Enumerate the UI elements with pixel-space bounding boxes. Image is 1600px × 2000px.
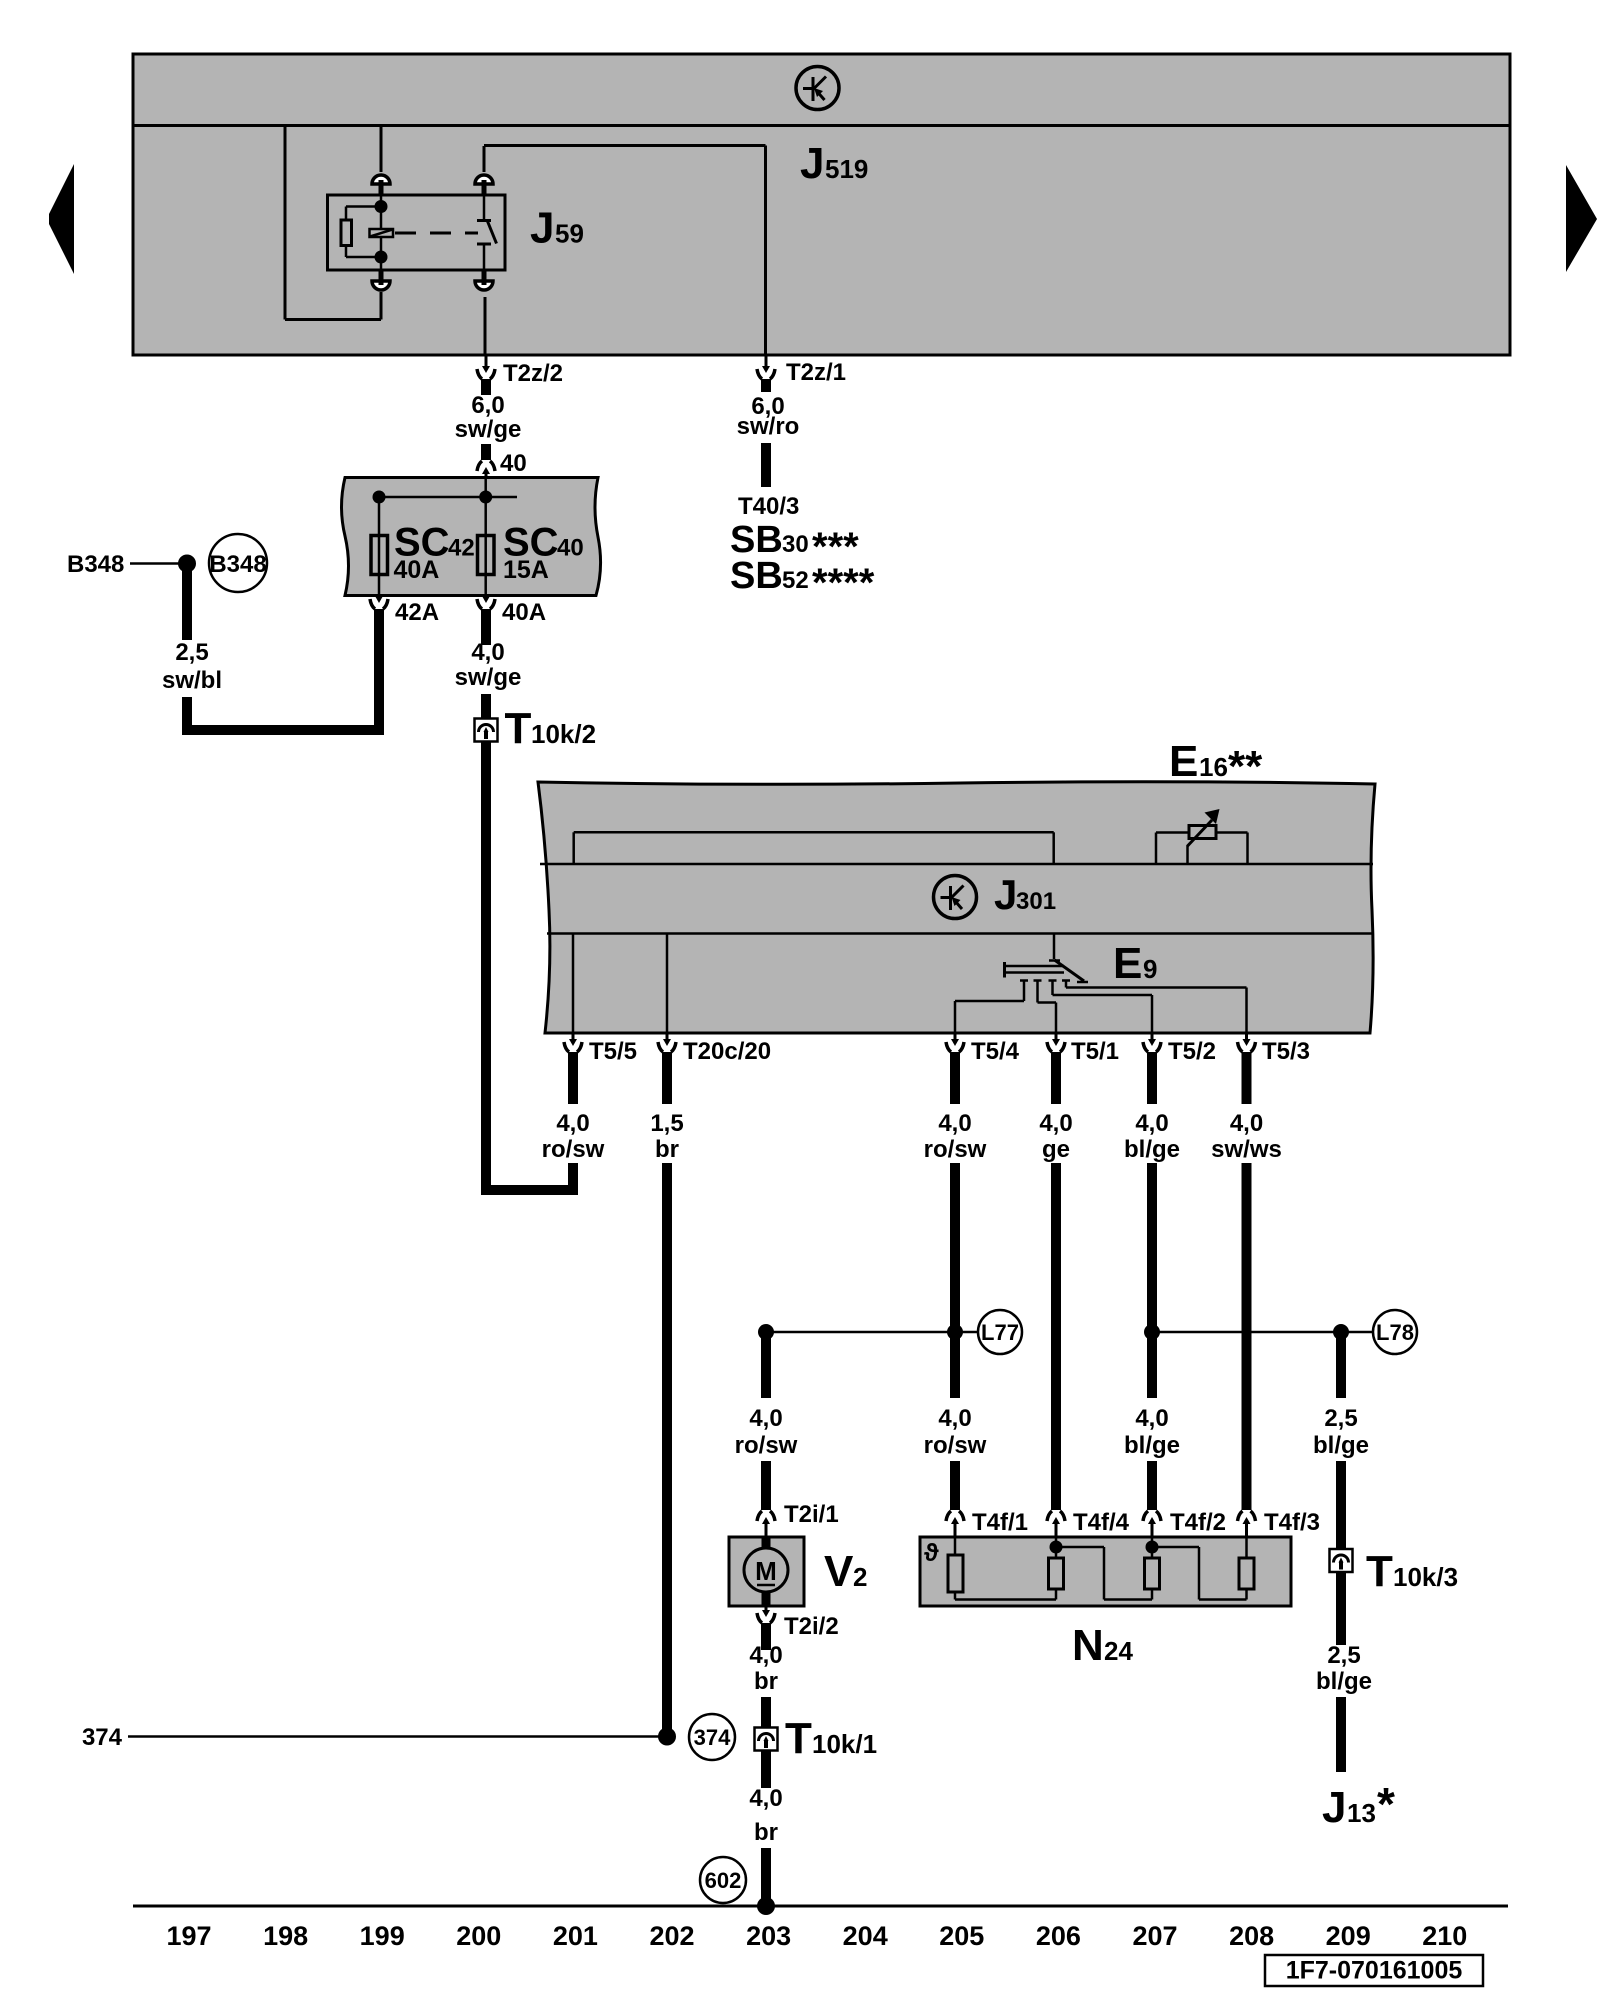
label E9 [1113,939,1157,988]
J59 pin top-right connector [475,175,493,195]
E9 contact 4 wire to T5/3 [1062,981,1247,1034]
wire 6,0 sw/ro lower segment [761,443,771,487]
J59 armature (actuator) symbol [370,207,394,258]
label J13 * [1322,1778,1395,1832]
svg-text:ro/sw: ro/sw [735,1432,798,1459]
wire J59 bottom-right pin to T2z/2 [484,297,487,355]
svg-text:T5/2: T5/2 [1168,1038,1216,1065]
wire 2,5 bl/ge from L78 upper segment [1336,1332,1346,1398]
svg-text:J: J [994,871,1017,918]
pin T4f/3 of N24 [1238,1509,1321,1537]
svg-text:T5/3: T5/3 [1262,1038,1310,1065]
N24 junction dot at T4f/4 [1050,1541,1063,1554]
junction dot 374 [658,1728,676,1746]
svg-text:T2z/2: T2z/2 [503,360,563,387]
svg-text:4,0: 4,0 [1230,1110,1263,1137]
svg-text:T2i/1: T2i/1 [784,1501,839,1528]
pin T2z/1 of J519 [757,355,846,386]
svg-text:T: T [1366,1547,1393,1596]
svg-text:br: br [655,1136,679,1163]
N24 resistor element 4 [1239,1537,1254,1589]
wire 4,0 ro/sw from T5/4 upper segment [950,1052,960,1104]
svg-text:42: 42 [448,535,475,562]
V2 motor symbol [744,1537,788,1606]
svg-text:bl/ge: bl/ge [1316,1668,1372,1695]
svg-text:6,0: 6,0 [471,392,504,419]
wire inside J301 to T5/5 [572,934,575,1034]
series resistor N24 box [920,1537,1291,1606]
svg-text:T4f/2: T4f/2 [1170,1509,1226,1536]
svg-text:209: 209 [1326,1921,1371,1951]
wire label 4,0 br (upper) [749,1642,782,1695]
wire 2,5 sw/bl up to B348 upper segment [182,563,192,640]
wire 4,0 ro/sw to T4f/1 lower segment [950,1461,960,1510]
wire 4,0 sw/ge to connector T10k/2 [481,694,491,719]
svg-text:519: 519 [825,154,868,184]
J59 coil winding [341,195,388,270]
svg-text:ro/sw: ro/sw [924,1432,987,1459]
svg-text:T2i/2: T2i/2 [784,1613,839,1640]
svg-text:52: 52 [782,567,809,594]
svg-text:4,0: 4,0 [749,1642,782,1669]
pin T20c/20 of J301 [658,1033,771,1065]
wire label 1,5 br [650,1110,683,1163]
svg-text:bl/ge: bl/ge [1313,1432,1369,1459]
label SC40 15A [503,521,584,585]
wire label 6,0 sw/ro [737,393,800,440]
node circle B348 [209,534,267,592]
wire label 4,0 bl/ge (T5/2) [1124,1110,1180,1163]
pin T5/3 of J301 [1238,1033,1311,1065]
label B348 (left) [67,551,124,578]
pin T5/2 of J301 [1143,1033,1216,1065]
svg-text:199: 199 [360,1921,405,1951]
svg-text:T5/1: T5/1 [1071,1038,1119,1065]
svg-text:203: 203 [746,1921,791,1951]
svg-text:T4f/3: T4f/3 [1264,1509,1320,1536]
label J301 [994,871,1056,918]
pin 42A of fuse holder [370,596,439,627]
label E16 ** [1169,737,1263,791]
svg-text:ro/sw: ro/sw [542,1136,605,1163]
svg-text:202: 202 [649,1921,694,1951]
svg-text:L77: L77 [981,1320,1019,1345]
svg-text:1,5: 1,5 [650,1110,683,1137]
svg-text:br: br [754,1819,778,1846]
svg-text:br: br [754,1668,778,1695]
junction on bus at fuse SC40 [479,491,492,504]
svg-text:374: 374 [82,1724,123,1751]
label N24 [1072,1621,1133,1670]
current track ruler numbers [166,1921,1467,1951]
svg-text:207: 207 [1132,1921,1177,1951]
svg-text:16: 16 [1199,752,1228,782]
svg-text:24: 24 [1104,1636,1133,1666]
E9 contact 1 wire to T5/4 [955,981,1028,1034]
svg-text:**: ** [1228,742,1263,791]
N24 internal wire T4f/2 to R4 [1152,1547,1247,1600]
wire 4,0 ro/sw from T5/5 upper segment [568,1052,578,1104]
svg-text:30: 30 [782,531,809,558]
wire 2,5 bl/ge below T10k/3 [1336,1572,1346,1645]
internal connection symbol (circle-K) in J301 [934,876,977,919]
svg-text:201: 201 [553,1921,598,1951]
pin T5/4 of J301 [946,1033,1020,1065]
svg-text:4,0: 4,0 [1135,1110,1168,1137]
svg-text:40A: 40A [394,556,440,584]
junction dot on T5/2 wire (L78) [1144,1324,1160,1340]
wire 6,0 sw/ro upper segment [761,379,771,392]
svg-text:2,5: 2,5 [1324,1405,1357,1432]
J59 pin bottom-right connector [475,270,493,290]
svg-text:374: 374 [694,1725,731,1750]
wire J519 internal from J59 top-right pin to T2z/1 [484,146,766,356]
wire 4,0 ro/sw from T5/4 to L77 [950,1163,960,1332]
in-line connector T10k/1 [755,1714,878,1763]
svg-text:V: V [824,1547,854,1596]
ground rail line [133,1905,1508,1908]
svg-text:9: 9 [1143,954,1157,984]
wire inside J301 to T20c/20 [666,934,669,1034]
svg-text:T5/4: T5/4 [971,1038,1020,1065]
svg-text:208: 208 [1229,1921,1274,1951]
label T40/3 [738,493,799,520]
wire 2,5 sw/bl horizontal run [182,725,384,735]
page-edge arrow right [1566,165,1597,272]
wire 4,0 br below T10k/1 [761,1751,771,1789]
svg-text:M: M [755,1556,777,1586]
label J519 [800,139,868,188]
wire label 4,0 ro/sw (V2 feed) [735,1405,798,1459]
E16 internal bus rectangle [574,832,1054,864]
wire J519 internal to J59 top-left pin [380,126,383,173]
pin 40A of fuse holder [477,596,546,627]
fuse SC40 symbol [478,536,495,575]
svg-text:200: 200 [456,1921,501,1951]
E9 contact 3 wire to T5/2 [1049,981,1153,1034]
wire below fuse SC42 [378,575,381,596]
svg-text:sw/ge: sw/ge [455,664,522,691]
wire label 4,0 ro/sw (T5/5) [542,1110,605,1163]
svg-text:T40/3: T40/3 [738,493,799,520]
heater control unit box J301 / fresh air controls E16 [538,782,1375,1033]
wire 4,0 sw/ws long run to T4f/3 [1242,1163,1252,1510]
svg-text:bl/ge: bl/ge [1124,1432,1180,1459]
in-line connector T10k/2 [475,704,597,753]
svg-text:E: E [1113,939,1142,988]
svg-text:SB: SB [730,555,783,597]
svg-text:4,0: 4,0 [749,1405,782,1432]
pin T2i/2 of V2 [757,1606,839,1640]
J59 pin bottom-left connector [372,270,390,290]
wire label 6,0 sw/ge [455,392,522,443]
E9 contact 2 wire to T5/1 [1034,981,1057,1034]
svg-text:15A: 15A [503,556,549,584]
svg-text:J: J [800,139,824,188]
wire 2,5 bl/ge to J13 [1336,1697,1346,1772]
svg-text:210: 210 [1422,1921,1467,1951]
wire 1,5 br long run to node 374 [662,1163,672,1732]
wire 4,0 ro/sw from L77 to V2 upper segment [761,1332,771,1398]
wire label 4,0 ro/sw (T4f/1 feed) [924,1405,987,1459]
fuse panel internal bus [379,497,517,536]
N24 internal wire R1-R2 [955,1589,1056,1600]
node circle L77 [978,1310,1022,1354]
svg-text:B348: B348 [209,551,266,578]
wire label 4,0 sw/ws [1211,1110,1282,1163]
svg-text:2,5: 2,5 [175,639,208,666]
wire 4,0 br to T10k/1 [761,1697,771,1728]
svg-text:****: **** [812,561,875,605]
svg-text:4,0: 4,0 [471,639,504,666]
wire 4,0 br to ground point 602 [761,1848,771,1906]
svg-text:sw/ge: sw/ge [455,416,522,443]
svg-text:4,0: 4,0 [938,1110,971,1137]
internal connection symbol (circle-K) in J519 [796,67,839,110]
svg-text:sw/ro: sw/ro [737,413,800,440]
svg-text:198: 198 [263,1921,308,1951]
svg-text:40: 40 [500,450,527,477]
in-line connector T10k/3 [1330,1547,1459,1596]
svg-text:L78: L78 [1376,1320,1414,1345]
svg-text:4,0: 4,0 [1135,1405,1168,1432]
svg-text:sw/ws: sw/ws [1211,1136,1282,1163]
J301 box separator lines [540,864,1373,934]
blower switch E9 feed wire [1053,934,1056,960]
wire 4,0 bl/ge from T5/2 to L78 [1147,1163,1157,1332]
svg-text:2,5: 2,5 [1327,1642,1360,1669]
svg-text:10k/3: 10k/3 [1393,1562,1458,1592]
wire label 2,5 bl/ge (upper) [1313,1405,1369,1459]
svg-text:1F7-070161005: 1F7-070161005 [1286,1957,1463,1985]
svg-text:206: 206 [1036,1921,1081,1951]
node circle 374 [689,1714,735,1760]
N24 internal wire T4f/4 to R3 [1056,1547,1152,1600]
wire 4,0 bl/ge from T5/2 upper segment [1147,1052,1157,1104]
svg-text:E: E [1169,737,1198,786]
wire 4,0 sw/ws from T5/3 upper segment [1242,1052,1252,1104]
label SB30 *** [730,519,859,569]
svg-text:4,0: 4,0 [1039,1110,1072,1137]
svg-text:T4f/4: T4f/4 [1073,1509,1130,1536]
svg-text:602: 602 [705,1868,742,1893]
node L78 link wire [1152,1331,1373,1334]
J59 mechanical link (dashed) [395,232,478,235]
potentiometer E16 (illumination dimmer) [1156,809,1248,864]
junction on bus at fuse SC42 [373,491,386,504]
wire 4,0 ro/sw from L77 to V2 lower segment [761,1461,771,1510]
node 374 link wire [128,1735,667,1738]
wire 4,0 bl/ge from L78 on T5/2 branch [1147,1332,1157,1398]
N24 resistor element 3 [1145,1537,1160,1589]
node circle L78 [1373,1310,1417,1354]
junction dot on V2 branch (L77) [758,1324,774,1340]
J59 pin top-left connector [372,175,390,195]
svg-text:205: 205 [939,1921,984,1951]
svg-text:301: 301 [1016,888,1056,915]
ground junction dot 602 [757,1897,775,1915]
svg-text:40A: 40A [502,599,546,626]
junction dot on T5/4 wire (L77) [947,1324,963,1340]
pin 40 on fuse holder [477,450,527,478]
wire 4,0 ge from T5/1 upper segment [1051,1052,1061,1104]
svg-text:bl/ge: bl/ge [1124,1136,1180,1163]
label V2 [824,1547,867,1596]
wire J519 internal to J59 coil pin (left drop) [285,126,381,320]
svg-text:T2z/1: T2z/1 [786,359,846,386]
svg-text:10k/2: 10k/2 [531,719,596,749]
pin T2i/1 of V2 [757,1501,839,1537]
svg-text:4,0: 4,0 [556,1110,589,1137]
pin T4f/4 of N24 [1047,1509,1130,1537]
svg-text:T: T [785,1714,812,1763]
wire label 2,5 sw/bl [162,639,222,694]
wire 2,5 sw/bl lower segment [182,697,192,735]
svg-text:ro/sw: ro/sw [924,1136,987,1163]
label J59 [530,204,584,253]
wire label 4,0 br (lower) [749,1785,782,1846]
diagram number box [1265,1955,1483,1986]
svg-text:42A: 42A [395,599,439,626]
fresh air blower V2 box [729,1537,804,1606]
wire 4,0 bl/ge to T4f/2 lower segment [1147,1461,1157,1510]
svg-text:4,0: 4,0 [749,1785,782,1812]
fuse holder box (SC fuses) [342,478,601,596]
svg-text:ϑ: ϑ [924,1539,939,1567]
wire 2,5 bl/ge to T10k/3 [1336,1461,1346,1549]
svg-text:T4f/1: T4f/1 [972,1509,1028,1536]
svg-text:B348: B348 [67,551,124,578]
wire 4,0 br from T2i/2 upper segment [761,1623,771,1650]
svg-text:*: * [1377,1778,1395,1830]
svg-text:4,0: 4,0 [938,1405,971,1432]
svg-text:N: N [1072,1621,1104,1670]
wire label 4,0 ro/sw (T5/4) [924,1110,987,1163]
wire label 4,0 sw/ge [455,639,522,691]
node B348 junction dot [178,555,196,573]
blower switch E9 slider symbol [1005,960,1089,982]
N24 resistor element 1 [948,1537,963,1592]
node circle 602 [700,1857,746,1903]
svg-text:T: T [505,704,532,753]
svg-text:10k/1: 10k/1 [812,1729,877,1759]
wire 4,0 ro/sw long run from T10k/2 to T5/5 [481,742,578,1191]
wire 1,5 br from T20c/20 upper segment [662,1052,672,1104]
wire 4,0 sw/ge upper segment [481,609,491,645]
junction dot on T10k/3 branch (L78) [1333,1324,1349,1340]
svg-text:T20c/20: T20c/20 [683,1038,771,1065]
J59 switch contact [477,195,497,270]
svg-text:59: 59 [555,219,584,249]
svg-text:197: 197 [166,1921,211,1951]
wire stub to node B348 [130,562,187,565]
pin T5/5 of J301 [564,1033,637,1065]
node L77 link wire [766,1331,978,1334]
wire 6,0 sw/ge lower segment [481,444,491,460]
N24 resistor element 2 [1049,1537,1064,1589]
svg-text:J: J [1322,1783,1346,1832]
N24 junction dot at T4f/2 [1146,1541,1159,1554]
pin T5/1 of J301 [1047,1033,1119,1065]
page-edge arrow left [49,164,74,274]
N24 temperature symbol [924,1539,939,1567]
wire label 4,0 ge [1039,1110,1072,1163]
wire through fuse SC40 [484,478,487,596]
svg-text:204: 204 [843,1921,888,1951]
wire label 4,0 bl/ge (T4f/2 feed) [1124,1405,1180,1459]
svg-text:13: 13 [1347,1798,1376,1828]
svg-text:sw/bl: sw/bl [162,667,222,694]
svg-text:ge: ge [1042,1136,1070,1163]
svg-text:T5/5: T5/5 [589,1038,637,1065]
relay J59 box (load reduction relay) [328,195,506,270]
pin T2z/2 of J519 [477,355,563,387]
wire 4,0 ro/sw from L77 continues on T5/4 branch [950,1332,960,1398]
pin T4f/2 of N24 [1143,1509,1226,1537]
wire 2,5 sw/bl from 42A down [374,609,384,730]
svg-text:40: 40 [557,535,584,562]
label 374 (left) [82,1724,123,1751]
control unit J519 box (onboard supply control unit) [133,54,1510,355]
wire label 2,5 bl/ge (lower) [1316,1642,1372,1695]
svg-text:J: J [530,204,554,253]
svg-text:2: 2 [853,1562,867,1592]
wire 4,0 ge long run to T4f/4 [1051,1163,1061,1510]
fuse SC42 symbol [371,536,388,575]
wire 6,0 sw/ge upper segment [481,379,491,395]
pin T4f/1 of N24 [946,1509,1028,1537]
label SC42 40A [394,521,475,585]
